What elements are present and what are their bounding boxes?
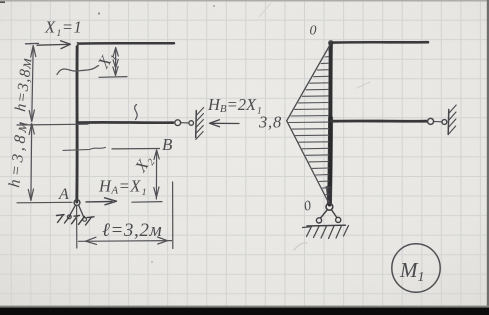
corner junction eraser spot (left frame) [73, 42, 77, 46]
middle beam (left frame) [77, 121, 173, 124]
force arrow HB (pointing left) [210, 120, 240, 127]
moment diagram hypotenuse (lower) [287, 121, 330, 204]
right middle beam [331, 120, 427, 123]
bottom black bar [0, 308, 489, 315]
bottom dark strip transition [0, 306, 489, 308]
roller support at B: hinge circle [175, 120, 181, 126]
right top beam [331, 41, 428, 44]
moment diagram hatching [328, 49, 330, 51]
break squiggle on middle beam [135, 105, 138, 120]
svg-text:0: 0 [310, 24, 317, 39]
roller support at B: wall hatching [196, 108, 204, 140]
right edge shadow [487, 0, 489, 315]
dark pencil wedge above bottom pin [326, 186, 333, 204]
svg-text:B: B [162, 135, 173, 154]
extension line bottom (at support level) [17, 201, 72, 204]
pin support at A: hinge circle [74, 200, 80, 206]
right column (heavy stroke) [330, 44, 331, 205]
pin support at A: legs [70, 205, 84, 218]
faint pencil smudge marks [98, 12, 100, 14]
force arrow HA (pointing right) [86, 198, 117, 205]
dimension X2 [112, 149, 162, 203]
roller support at B: link line [181, 122, 189, 124]
pin support bottom right: foot circles [316, 218, 321, 223]
pin support bottom right: ground line [307, 224, 346, 227]
svg-text:3,8: 3,8 [258, 113, 282, 132]
dimension X1 (top) [99, 48, 127, 78]
corner junction blob (right diagram) [328, 40, 334, 46]
svg-text:X₁=1: X₁=1 [44, 18, 82, 37]
force arrow X1 at top corner [37, 41, 71, 49]
pin support at A: foot circles [67, 215, 71, 219]
pin support bottom right: hinge circle [326, 203, 333, 210]
svg-text:A: A [58, 186, 69, 203]
column AB (left frame vertical member) [75, 44, 78, 203]
level tick at B height across column [63, 147, 106, 150]
pin support bottom right: legs [321, 210, 337, 219]
moment diagram hypotenuse (upper) [287, 44, 331, 121]
h dimension line (upper segment) [29, 46, 36, 122]
h dimension line (lower segment) [28, 124, 34, 201]
pin support at A: ground hatching [57, 215, 95, 225]
break squiggle on column [57, 66, 99, 75]
svg-text:ℓ=3,2м: ℓ=3,2м [102, 220, 162, 241]
dimension l=3,2m: right extension line [172, 182, 174, 249]
roller support right: hinge circle [428, 118, 434, 124]
roller support right: link line [434, 121, 442, 123]
corner speck [0, 0, 5, 3]
extension tick top (at beam level) [26, 42, 39, 44]
roller support right: wall hatching [448, 105, 456, 135]
dimension l=3,2m: left extension line [76, 207, 78, 249]
top beam (left frame) [77, 42, 174, 45]
svg-text:HA=X₁: HA=X₁ [98, 177, 147, 197]
roller support at B: wall hinge circle [189, 121, 194, 126]
top edge shadow [0, 0, 489, 2]
roller support right: wall hinge circle [442, 120, 447, 125]
dimension l=3,2m: dimension line with arrows [79, 237, 172, 244]
roller support right: wall line [447, 110, 450, 135]
M1 circle [392, 244, 440, 292]
extension line middle (at middle beam level) [17, 123, 88, 126]
roller support at B: wall line [195, 111, 198, 138]
svg-text:HB=2X₁: HB=2X₁ [207, 95, 262, 115]
right column overdraw (lower half) [329, 118, 330, 203]
pin support bottom right: ground hatching [303, 226, 349, 239]
